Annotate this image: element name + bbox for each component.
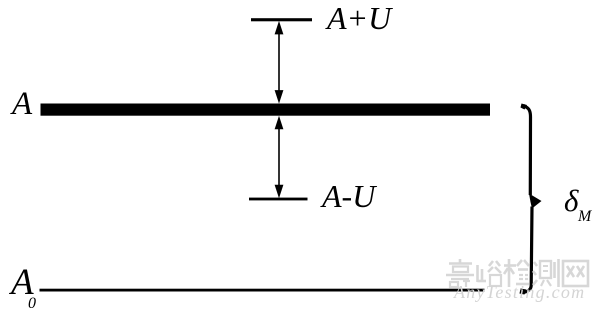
watermark char 3 jian bbox=[504, 259, 529, 287]
watermark char 2 yu bbox=[478, 261, 502, 286]
label A0 subscript 0 bbox=[28, 296, 36, 312]
watermark char 5 wang bbox=[563, 261, 588, 286]
watermark chinese characters (drawn strokes) bbox=[446, 259, 588, 287]
label delta bbox=[564, 185, 578, 216]
label A0 (true value) bbox=[11, 264, 34, 301]
label A (measured value) bbox=[12, 88, 32, 121]
watermark anytesting.com bbox=[454, 283, 585, 301]
label A-U bbox=[322, 180, 375, 212]
line A-U (lower uncertainty limit) bbox=[249, 198, 308, 201]
line A (measured value, thick) bbox=[41, 104, 491, 116]
watermark char 1 jia bbox=[446, 259, 474, 287]
line A0 (true value) bbox=[40, 289, 485, 292]
brace delta_M (right curly brace) bbox=[520, 104, 542, 295]
arrow U lower (double-headed, A line to A-U line) bbox=[275, 116, 284, 198]
arrow U upper (double-headed, A+U line to A line) bbox=[275, 21, 284, 104]
label A+U bbox=[327, 2, 391, 34]
line A+U (upper uncertainty limit) bbox=[251, 18, 312, 21]
watermark char 4 ce bbox=[533, 259, 559, 287]
label delta subscript M bbox=[578, 209, 591, 225]
